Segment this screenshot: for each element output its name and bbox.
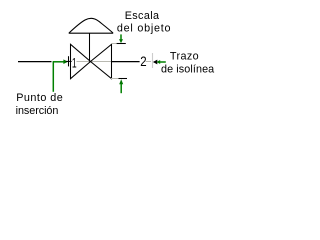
arrowhead black at 2 bbox=[153, 60, 157, 65]
wire left pipe bbox=[18, 61, 52, 63]
node insertion point cross bbox=[68, 56, 70, 66]
svg-text:de isolínea: de isolínea bbox=[161, 64, 214, 76]
svg-text:1: 1 bbox=[72, 54, 77, 70]
arrowhead green at 2 bbox=[157, 60, 161, 64]
wire green tail at 2 bbox=[160, 61, 166, 63]
wire gray dash after 2 bbox=[146, 61, 151, 63]
wire gray bottom extension bbox=[111, 78, 119, 80]
valve stem bbox=[89, 33, 91, 62]
arrowhead leader 1 bbox=[63, 59, 68, 64]
node 2 gray tick bbox=[152, 53, 154, 68]
wire leader from Punto de insercion (vertical) bbox=[52, 61, 54, 92]
actuator dome base bbox=[69, 32, 114, 34]
svg-text:Escala: Escala bbox=[125, 10, 159, 22]
wire top dimension tick bbox=[117, 43, 126, 45]
wire gray isoline centerline bbox=[77, 61, 112, 63]
wire right pipe bbox=[111, 61, 140, 63]
arrow dimension down bbox=[120, 34, 122, 39]
valve right triangle bbox=[91, 44, 112, 78]
arrow dimension up bbox=[119, 79, 123, 84]
wire bottom dimension tick bbox=[119, 78, 128, 80]
svg-text:2: 2 bbox=[140, 53, 147, 69]
svg-text:Punto de: Punto de bbox=[16, 92, 63, 104]
svg-text:inserción: inserción bbox=[16, 105, 59, 117]
svg-text:del objeto: del objeto bbox=[117, 23, 171, 35]
svg-text:Trazo: Trazo bbox=[170, 51, 199, 63]
valve left triangle bbox=[71, 44, 91, 78]
wire leader horizontal bbox=[53, 61, 64, 63]
actuator dome arc bbox=[69, 18, 113, 33]
wire gray top extension bbox=[111, 43, 117, 45]
